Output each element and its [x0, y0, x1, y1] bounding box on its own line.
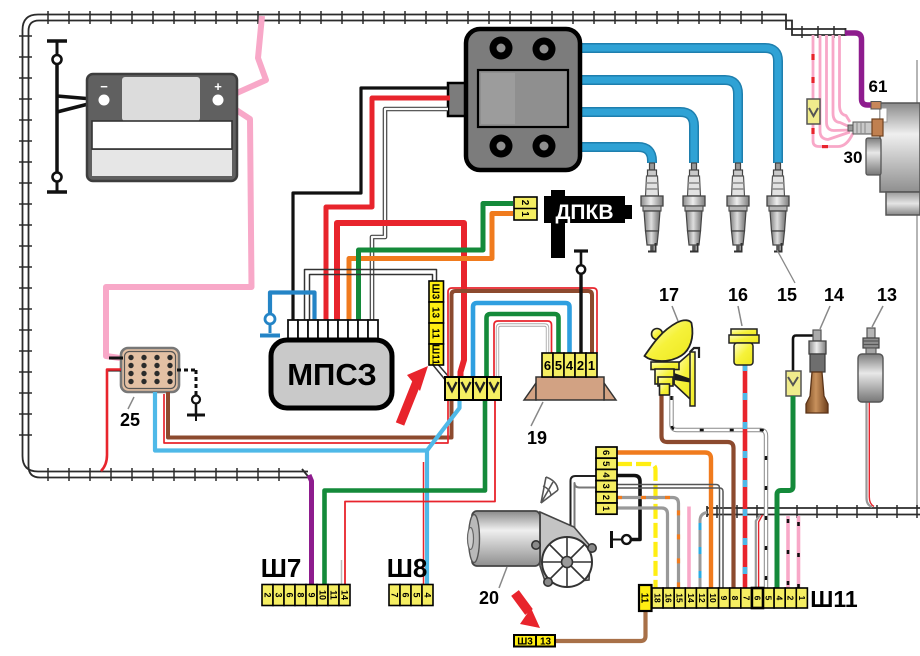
- svg-text:1: 1: [797, 596, 807, 601]
- svg-text:6: 6: [600, 450, 611, 455]
- svg-text:МПСЗ: МПСЗ: [287, 357, 377, 392]
- svg-text:Ш11: Ш11: [430, 344, 441, 365]
- svg-text:4: 4: [600, 472, 611, 478]
- svg-text:15: 15: [675, 593, 685, 603]
- svg-text:61: 61: [869, 77, 888, 96]
- svg-text:8: 8: [730, 596, 740, 601]
- svg-text:18: 18: [653, 593, 663, 603]
- svg-text:−: −: [100, 79, 108, 94]
- svg-text:11: 11: [638, 593, 649, 604]
- svg-text:25: 25: [120, 410, 140, 430]
- svg-text:2: 2: [519, 200, 530, 206]
- svg-text:14: 14: [686, 593, 696, 603]
- svg-text:ДПКВ: ДПКВ: [555, 201, 613, 224]
- svg-text:7: 7: [389, 592, 399, 597]
- svg-text:6: 6: [752, 596, 762, 601]
- svg-text:4: 4: [422, 592, 432, 597]
- svg-text:4: 4: [775, 596, 785, 601]
- svg-text:5: 5: [555, 358, 562, 373]
- svg-text:Ш11: Ш11: [810, 586, 858, 612]
- svg-text:3: 3: [600, 484, 611, 489]
- svg-text:11: 11: [430, 328, 441, 339]
- svg-text:Ш7: Ш7: [261, 553, 302, 583]
- svg-text:7: 7: [741, 596, 751, 601]
- svg-text:16: 16: [728, 285, 748, 305]
- svg-text:2: 2: [600, 495, 611, 500]
- svg-text:30: 30: [844, 148, 863, 167]
- svg-text:14: 14: [339, 590, 349, 600]
- svg-text:5: 5: [411, 592, 421, 597]
- svg-text:10: 10: [708, 593, 718, 603]
- svg-text:5: 5: [600, 461, 611, 467]
- svg-text:13: 13: [540, 637, 552, 648]
- svg-text:Ш8: Ш8: [387, 553, 428, 583]
- svg-text:4: 4: [566, 358, 574, 373]
- svg-text:19: 19: [527, 428, 547, 448]
- svg-text:6: 6: [400, 592, 410, 597]
- svg-text:8: 8: [295, 592, 305, 597]
- svg-text:12: 12: [697, 593, 707, 603]
- svg-text:17: 17: [659, 285, 679, 305]
- svg-text:10: 10: [317, 590, 327, 600]
- svg-text:2: 2: [577, 358, 584, 373]
- svg-text:5: 5: [764, 596, 774, 601]
- svg-text:9: 9: [306, 592, 316, 597]
- svg-text:14: 14: [824, 285, 844, 305]
- svg-text:6: 6: [284, 592, 294, 597]
- svg-text:1: 1: [600, 506, 611, 512]
- svg-text:13: 13: [430, 307, 441, 319]
- svg-text:13: 13: [877, 285, 897, 305]
- svg-text:Ш3: Ш3: [517, 637, 533, 648]
- svg-text:16: 16: [664, 593, 674, 603]
- svg-text:1: 1: [588, 358, 595, 373]
- svg-text:2: 2: [262, 592, 272, 597]
- svg-text:3: 3: [273, 592, 283, 597]
- svg-text:1: 1: [519, 211, 530, 217]
- svg-text:6: 6: [544, 358, 551, 373]
- svg-text:15: 15: [777, 285, 797, 305]
- svg-text:9: 9: [719, 596, 729, 601]
- svg-text:Ш3: Ш3: [430, 284, 441, 300]
- svg-text:+: +: [214, 79, 222, 94]
- svg-text:11: 11: [328, 590, 338, 600]
- svg-text:20: 20: [479, 588, 499, 608]
- svg-text:2: 2: [786, 596, 796, 601]
